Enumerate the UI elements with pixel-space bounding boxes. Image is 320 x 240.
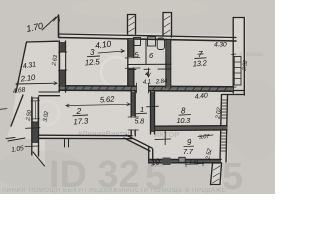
svg-text:3.07: 3.07	[199, 134, 211, 141]
svg-text:5.8: 5.8	[135, 117, 145, 126]
svg-text:13.2: 13.2	[192, 58, 208, 68]
svg-text:7.7: 7.7	[183, 147, 194, 156]
svg-text:1: 1	[140, 105, 144, 114]
svg-text:10.3: 10.3	[177, 116, 192, 125]
svg-text:1.11: 1.11	[189, 161, 199, 167]
svg-text:17.3: 17.3	[73, 116, 89, 126]
svg-text:ЛИНИЯ ПОМОЩИ ВЫКУП НЕДВИЖИМОС: ЛИНИЯ ПОМОЩИ ВЫКУП НЕДВИЖИМОСТИ ПОМОЩЬ В…	[2, 188, 227, 194]
svg-text:4.1: 4.1	[143, 78, 152, 86]
svg-text:#ЛинияВиктор: #ЛинияВиктор	[78, 129, 132, 138]
svg-text:5.62: 5.62	[100, 94, 116, 104]
svg-text:4.10: 4.10	[95, 39, 112, 51]
svg-text:4.30: 4.30	[214, 42, 227, 49]
svg-text:12.5: 12.5	[84, 57, 100, 67]
svg-text:ИКТОР: ИКТОР	[154, 130, 179, 139]
svg-text:я помощ: я помощ	[239, 52, 263, 58]
svg-text:2.84: 2.84	[155, 77, 169, 85]
svg-text:2: 2	[76, 106, 82, 116]
svg-text:4: 4	[145, 71, 149, 78]
